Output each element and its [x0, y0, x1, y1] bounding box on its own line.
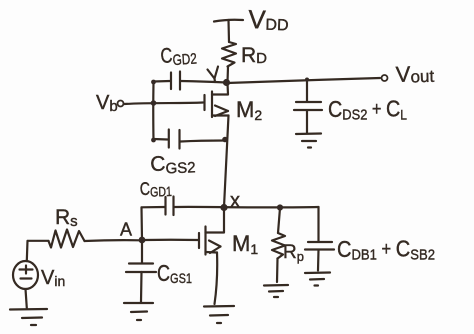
svg-text:x: x [230, 190, 240, 212]
svg-text:RD: RD [241, 44, 267, 67]
svg-text:M2: M2 [236, 97, 262, 123]
svg-text:Vin: Vin [41, 267, 65, 289]
svg-text:Rs: Rs [55, 206, 78, 230]
svg-text:VDD: VDD [248, 4, 289, 35]
svg-text:CGS2: CGS2 [150, 151, 196, 178]
svg-text:Vb: Vb [96, 92, 118, 115]
svg-text:CGD2: CGD2 [160, 43, 198, 70]
svg-text:M1: M1 [232, 231, 258, 257]
svg-text:Vout: Vout [395, 61, 434, 87]
svg-text:A: A [120, 220, 132, 240]
svg-text:CDB1 + CSB2: CDB1 + CSB2 [337, 236, 435, 264]
svg-text:CGD1: CGD1 [139, 178, 172, 200]
svg-text:Rp: Rp [283, 242, 304, 264]
svg-text:CDS2 + CL: CDS2 + CL [328, 96, 407, 124]
svg-text:CGS1: CGS1 [157, 260, 192, 286]
